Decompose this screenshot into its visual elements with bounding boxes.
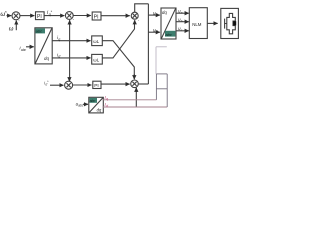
converter box [221,8,239,38]
id feedback wire to wL2 [52,57,90,59]
summing junction S1 [12,12,20,20]
ud wire into transform [148,31,159,33]
summing junction S4 [131,80,139,88]
label dq bottom block [97,108,102,113]
svg-text:ω: ω [9,26,14,32]
label id_ref [44,80,49,87]
svg-text:abc: abc [90,99,96,103]
id measured wire (red) [103,106,167,108]
label dq in block [44,56,49,61]
svg-text:b: b [181,19,183,23]
iq feedback wire to wL1 [52,40,90,42]
PI controller PI2 [92,12,101,20]
svg-text:abc: abc [36,29,42,34]
svg-text:abc: abc [166,32,172,37]
minus mark at S3 [138,17,140,22]
svg-text:PI: PI [37,14,42,20]
svg-text:dq: dq [44,56,49,61]
svg-text:d: d [156,30,158,34]
wire S4 output to bus [138,83,148,85]
input label bottom block [76,101,84,107]
PI controller PI3 [93,81,101,89]
svg-text:a: a [181,11,183,15]
vertical bus wire [147,4,149,84]
zigzag vertical iq [155,74,157,100]
summing junction S2 [65,12,73,20]
wire PI3 to S4 [101,83,130,85]
svg-text:q: q [156,13,158,17]
label iq_ref [47,9,53,17]
abc to dq measurement block [35,28,52,64]
svg-text:abc: abc [21,48,27,52]
summing junction S5 [65,81,73,89]
label abc highlighted in block [165,31,175,37]
wire PI1 to S2 [44,15,64,17]
label iq [57,35,60,41]
feedback wire into S1 bottom [15,21,17,31]
wire omega_ref to S1 [7,15,12,17]
wire PI2 to S3 [101,15,130,17]
feedback vertical wire S2 to S5 [69,20,71,81]
PI controller PI1 [36,12,45,20]
svg-text:d: d [106,104,108,108]
phase wire ua [176,12,189,14]
summing junction S3 [131,12,138,19]
svg-text:ωL: ωL [93,39,99,44]
crossing wire wL2 to S3 [102,21,134,58]
minus sign at S2 [73,17,75,22]
label uq [153,10,158,16]
svg-text:q: q [58,37,60,41]
label id red [105,102,109,108]
current input wire [26,46,34,48]
label dq in block [162,10,167,15]
zigzag tread lower [156,88,167,90]
svg-text:q: q [106,97,108,101]
zigzag tread upper [156,73,167,75]
label omega feedback [9,26,14,32]
svg-text:dq: dq [162,10,167,15]
wire S2 to PI2 [73,15,91,17]
wire NLM to converter [207,22,217,24]
wire S5 to PI3 [73,84,92,86]
svg-text:PI: PI [94,83,99,89]
zigzag vertical id [166,74,168,107]
label iq red [105,95,109,101]
svg-text:*: * [5,10,7,15]
phase wire uc [176,30,189,32]
phase wire ub [176,21,189,23]
svg-text:d: d [58,55,60,59]
wL block 1 [92,36,103,46]
uq wire into transform [148,14,159,16]
NLM block [189,8,207,39]
converter inner symbol [225,13,237,33]
faint continuation horizontal [156,46,167,48]
iq measured wire (red) [103,99,157,101]
label abc highlighted [35,28,45,33]
svg-text:PI: PI [94,14,99,20]
minus sign at S1 [18,18,20,23]
svg-text:ωL: ωL [93,58,99,63]
label omega_ref [0,10,7,18]
label abc highlighted bottom block [89,98,97,103]
wire S3 output up and over [135,4,149,12]
wL block 2 [92,54,103,64]
input wire bottom block [83,103,88,105]
svg-text:NLM: NLM [192,22,202,27]
wire id_ref to S5 [50,84,63,86]
label ud [153,27,158,33]
label id [57,52,60,58]
crossing wire wL1 to S4 [102,41,134,79]
wire S1 to PI1 [20,15,35,17]
dq to abc transform block [161,8,176,39]
faint continuation vertical [155,47,157,74]
svg-text:dq: dq [97,108,102,113]
wire into S4 from below [135,88,137,107]
bottom abc to dq block [89,97,104,113]
current input label [20,46,27,52]
